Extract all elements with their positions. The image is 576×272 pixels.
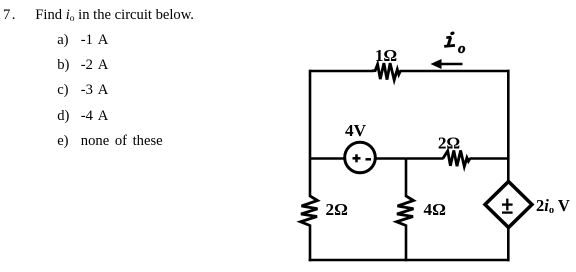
current arrow (pointing left): [431, 59, 463, 69]
svg-text:4V: 4V: [345, 121, 367, 140]
option e: [57, 134, 68, 149]
voltage source V1 4V: [345, 121, 376, 173]
option b: [57, 58, 69, 73]
wire: right vertical upper segment: [507, 70, 510, 183]
svg-text:2Ω: 2Ω: [438, 133, 460, 152]
svg-text:4Ω: 4Ω: [424, 200, 446, 219]
wire: left vertical upper segment: [309, 70, 312, 197]
dependent source U1 (diamond, 2io V): [485, 182, 570, 228]
svg-text:1Ω: 1Ω: [375, 46, 397, 65]
resistor R2 2ohm (left vertical): [301, 196, 348, 226]
question text: [35, 8, 194, 23]
question number: [3, 8, 17, 23]
wire: top-left horizontal segment: [309, 70, 373, 73]
wire: middle horizontal right segment: [470, 157, 509, 160]
svg-text:o: o: [458, 41, 466, 57]
wire: middle horizontal left segment: [310, 157, 345, 160]
wire: right vertical lower segment: [507, 227, 510, 262]
resistor R1 1ohm (top): [372, 46, 401, 80]
svg-text:2io V: 2io V: [536, 196, 570, 216]
option a: [57, 33, 68, 48]
current label i_o: [444, 31, 465, 57]
wire: middle vertical lower segment: [405, 225, 408, 262]
wire: top-right horizontal segment: [400, 70, 510, 73]
option c: [57, 83, 68, 98]
resistor R3 2ohm (middle horizontal): [438, 133, 470, 166]
wire: bottom horizontal: [309, 259, 510, 262]
wire: middle horizontal center segment: [376, 157, 444, 160]
svg-text:2Ω: 2Ω: [326, 200, 348, 219]
resistor R4 4ohm (middle vertical): [397, 196, 446, 226]
option d: [57, 109, 69, 124]
wire: middle vertical upper segment: [405, 159, 408, 198]
wire: left vertical lower segment: [309, 225, 312, 262]
